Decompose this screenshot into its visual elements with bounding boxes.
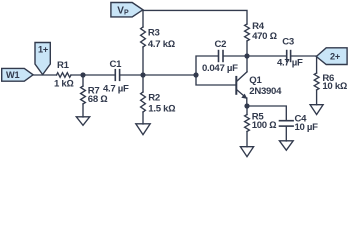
svg-text:2N3904: 2N3904 (249, 86, 282, 97)
output label 2+ (316, 48, 347, 65)
ground under R5 (240, 147, 253, 157)
junction dot emitter node (244, 103, 249, 108)
source label W1 (2, 68, 33, 81)
junction dot node C (244, 53, 249, 58)
svg-text:1+: 1+ (38, 45, 48, 55)
capacitor C4 (280, 121, 294, 126)
svg-text:0.047 µF: 0.047 µF (202, 63, 238, 74)
resistor R1 (57, 73, 72, 78)
svg-text:C3: C3 (282, 36, 294, 47)
transistor Q1 (236, 56, 247, 106)
svg-text:4.7 µF: 4.7 µF (277, 57, 303, 68)
wire node D down to Q1 base (196, 75, 236, 85)
svg-text:C2: C2 (215, 39, 227, 50)
svg-text:1 kΩ: 1 kΩ (54, 79, 74, 90)
wire C2 to node C (224, 55, 247, 57)
svg-text:W1: W1 (6, 70, 19, 80)
wire C1 to node D (120, 74, 196, 76)
resistor R2 (141, 92, 146, 112)
wire 2+ tip down to R6 (316, 57, 318, 74)
wire top rail VP to R4 (143, 10, 248, 24)
svg-text:1.5 kΩ: 1.5 kΩ (148, 103, 175, 114)
svg-text:4.7 kΩ: 4.7 kΩ (148, 39, 175, 50)
wire R7 to ground (82, 104, 84, 117)
capacitor C2 (219, 51, 224, 62)
svg-text:10 µF: 10 µF (295, 122, 319, 133)
svg-text:100 Ω: 100 Ω (252, 120, 277, 131)
svg-text:2+: 2+ (330, 52, 340, 62)
svg-text:10 kΩ: 10 kΩ (322, 81, 347, 92)
resistor R3 (141, 27, 146, 47)
svg-text:Q1: Q1 (249, 75, 262, 86)
wire node C to C3 (247, 55, 286, 57)
svg-text:R3: R3 (148, 28, 160, 39)
ground under R6 (310, 105, 323, 115)
resistor R4 (245, 24, 250, 41)
wire R3 to node B (142, 47, 144, 75)
node label 1+ (35, 43, 50, 75)
svg-text:R1: R1 (57, 60, 70, 71)
junction dot node B (140, 72, 145, 77)
svg-text:68 Ω: 68 Ω (88, 94, 108, 105)
wire C3 to 2+ (291, 55, 316, 57)
wire R4 to node C (246, 41, 248, 56)
wire R2 to ground (142, 112, 144, 124)
wire R1 to C1 (71, 74, 115, 76)
wire emitter node to C4 (247, 106, 286, 120)
capacitor C1 (115, 70, 119, 81)
wire C4 to ground (285, 127, 287, 141)
supply label VP (111, 3, 143, 17)
wire emitter node to R5 (246, 106, 248, 115)
resistor R6 (314, 73, 319, 90)
junction dot node A (80, 72, 85, 77)
wire R6 to ground (316, 90, 318, 105)
svg-text:R2: R2 (148, 93, 160, 104)
resistor R7 (81, 86, 86, 104)
wire node D up to C2 branch (196, 56, 218, 75)
junction dot node D (193, 72, 198, 77)
ground under R7 (76, 117, 89, 126)
svg-text:470 Ω: 470 Ω (252, 31, 277, 42)
capacitor C3 (287, 51, 291, 62)
ground under C4 (279, 141, 293, 150)
wire VP drop to R3 (142, 10, 144, 27)
wire R5 to ground (246, 132, 248, 147)
resistor R5 (245, 115, 250, 132)
ground under R2 (136, 124, 150, 135)
svg-text:C1: C1 (110, 59, 123, 70)
wire W1 to R1 (33, 74, 57, 76)
wire node A down to R7 (82, 75, 84, 86)
svg-text:4.7 µF: 4.7 µF (103, 83, 129, 94)
wire node B down to R2 (142, 75, 144, 92)
